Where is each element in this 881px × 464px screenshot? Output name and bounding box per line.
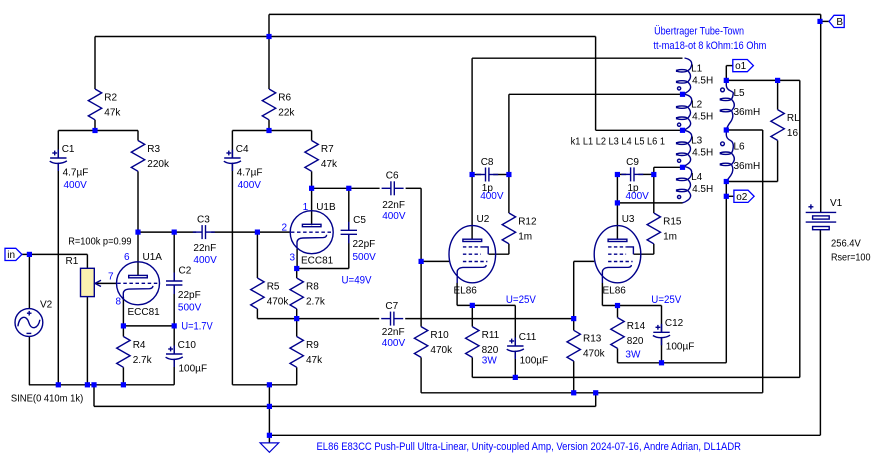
junction C12 bottom node bbox=[659, 360, 664, 365]
wire secondary CT to ground row bbox=[762, 130, 764, 393]
junction L1-L2 tap bbox=[680, 92, 685, 97]
wire bottom bus mid bbox=[232, 384, 296, 386]
wire R14 top bbox=[617, 306, 619, 318]
junction L2-L3 centre tap bbox=[680, 128, 685, 133]
junction U1B grid node bbox=[255, 230, 260, 235]
svg-text:C1: C1 bbox=[62, 144, 75, 155]
inductor L2 bbox=[676, 94, 713, 130]
svg-text:3: 3 bbox=[289, 252, 295, 263]
svg-text:R5: R5 bbox=[267, 281, 280, 292]
junction L6/RL node bbox=[724, 179, 729, 184]
svg-text:RL: RL bbox=[787, 113, 800, 124]
wire jog to ground bus bbox=[93, 385, 95, 407]
wire U2 anode to L1 top bbox=[472, 57, 682, 59]
resistor R8 bbox=[290, 278, 326, 309]
svg-text:o2: o2 bbox=[736, 192, 748, 203]
wire to V1 + bbox=[820, 14, 822, 212]
svg-text:22nF: 22nF bbox=[382, 327, 405, 338]
wire o1 flag stub bbox=[726, 65, 733, 67]
junction R8/R9/C7 node bbox=[294, 316, 299, 321]
wire o1 row bbox=[726, 79, 800, 81]
svg-text:22k: 22k bbox=[278, 107, 295, 118]
junction C9 right bbox=[651, 172, 656, 177]
wire o2 flag stub bbox=[726, 195, 733, 197]
inductor L4 bbox=[676, 167, 713, 203]
wire secondary centre tap bbox=[726, 129, 762, 131]
wire R1 bottom bbox=[86, 297, 88, 385]
resistor RL bbox=[771, 110, 800, 141]
junction U1A cathode node bbox=[121, 323, 126, 328]
svg-text:C2: C2 bbox=[179, 266, 192, 277]
wire U2 cathode bbox=[456, 283, 458, 306]
resistor R5 bbox=[251, 278, 290, 309]
wire o1 feedback row bbox=[472, 376, 800, 378]
wire R7 bottom bbox=[311, 171, 313, 188]
wire R1 wiper to U1A grid bbox=[97, 282, 117, 284]
wire R2 top bbox=[94, 37, 96, 90]
resistor R13 bbox=[567, 330, 606, 361]
wire R4 bottom bbox=[122, 367, 124, 385]
capacitor C8 bbox=[476, 157, 504, 202]
svg-text:400V: 400V bbox=[382, 338, 406, 349]
capacitor C1 bbox=[50, 144, 89, 191]
wire B+ top rail bbox=[269, 13, 821, 15]
svg-text:500V: 500V bbox=[178, 303, 202, 314]
svg-text:R15: R15 bbox=[663, 216, 682, 227]
wire V1 bottom bbox=[819, 230, 821, 435]
wire U1B cathode bbox=[296, 249, 298, 269]
svg-text:470k: 470k bbox=[430, 345, 453, 356]
junction C2 top bbox=[172, 230, 177, 235]
wire C1 top bbox=[57, 131, 59, 159]
svg-text:C10: C10 bbox=[178, 340, 197, 351]
resistor R6 bbox=[262, 89, 295, 120]
junction bus jog bbox=[91, 382, 96, 387]
svg-text:220k: 220k bbox=[147, 159, 170, 170]
junction C8 right bbox=[506, 172, 511, 177]
wire C12 bottom bbox=[661, 338, 663, 363]
svg-text:16: 16 bbox=[787, 128, 799, 139]
junction RL top node bbox=[775, 78, 780, 83]
potentiometer R1 bbox=[66, 256, 102, 297]
wire C2 top bbox=[173, 232, 175, 281]
svg-text:U1B: U1B bbox=[316, 202, 336, 213]
svg-text:C6: C6 bbox=[386, 171, 399, 182]
inductor L3 bbox=[676, 130, 713, 166]
resistor R2 bbox=[88, 89, 121, 120]
svg-text:Rser=100: Rser=100 bbox=[831, 252, 871, 263]
voltage source V1 (battery) bbox=[806, 198, 843, 230]
resistor R15 bbox=[647, 213, 682, 244]
svg-text:EL86 E83CC Push-Pull Ultra-Lin: EL86 E83CC Push-Pull Ultra-Linear, Unity… bbox=[317, 441, 742, 453]
capacitor C2 bbox=[166, 266, 202, 314]
wire C5 top bbox=[348, 188, 350, 230]
wire R8 top bbox=[296, 269, 298, 279]
svg-text:500V: 500V bbox=[353, 252, 377, 263]
wire V2 top bbox=[28, 254, 30, 308]
capacitor C6 bbox=[382, 171, 406, 223]
svg-text:22nF: 22nF bbox=[382, 200, 405, 211]
wire C1 down to bottom bus bbox=[57, 164, 59, 385]
junction C8 left bbox=[470, 172, 475, 177]
svg-text:C5: C5 bbox=[353, 215, 366, 226]
junction C10 top node bbox=[172, 323, 177, 328]
wire C2 bottom bbox=[173, 285, 175, 326]
svg-text:V1: V1 bbox=[830, 198, 843, 209]
wire C4 top bbox=[231, 131, 233, 159]
wire U1A cathode to R4 bbox=[122, 297, 124, 337]
resistor R4 bbox=[117, 337, 153, 368]
wire L3-L4 tap to R15 bbox=[654, 166, 683, 168]
capacitor C3 bbox=[193, 215, 217, 267]
wire R9 bottom bbox=[296, 367, 298, 385]
svg-text:4.5H: 4.5H bbox=[692, 75, 713, 86]
junction C5/C6 node bbox=[346, 186, 351, 191]
svg-text:2.7k: 2.7k bbox=[306, 296, 326, 307]
svg-text:R6: R6 bbox=[278, 92, 291, 103]
svg-text:47k: 47k bbox=[104, 107, 121, 118]
junction node o1 bbox=[724, 78, 729, 83]
wire R3 top bbox=[137, 131, 139, 141]
wire C8 left bbox=[472, 174, 481, 176]
resistor R7 bbox=[305, 141, 338, 172]
svg-text:36mH: 36mH bbox=[734, 107, 761, 118]
svg-text:47k: 47k bbox=[321, 159, 338, 170]
svg-text:R10: R10 bbox=[430, 330, 449, 341]
svg-text:R2: R2 bbox=[104, 92, 117, 103]
svg-text:R12: R12 bbox=[518, 216, 537, 227]
svg-text:400V: 400V bbox=[193, 255, 217, 266]
wire RL to o2 node bbox=[726, 181, 777, 183]
wire R11 top bbox=[471, 305, 473, 326]
wire R15 bottom bbox=[653, 244, 655, 254]
svg-text:R7: R7 bbox=[321, 144, 334, 155]
wire R6 bottom bbox=[268, 120, 270, 131]
svg-text:100µF: 100µF bbox=[179, 363, 208, 374]
wire C6 down to U2 grid / R10 bbox=[420, 188, 422, 326]
wire C5 bottom bbox=[348, 234, 350, 268]
wire C10 bottom bbox=[173, 360, 175, 385]
svg-text:1: 1 bbox=[303, 202, 309, 213]
wire U1A anode bbox=[137, 232, 139, 275]
wire U2 anode column bbox=[471, 58, 473, 239]
svg-text:U=25V: U=25V bbox=[506, 294, 537, 306]
wire to L2-L3 centre tap bbox=[596, 129, 683, 131]
svg-text:U=1.7V: U=1.7V bbox=[181, 321, 213, 333]
wire R7 top bbox=[311, 131, 313, 141]
junction bus C1 bbox=[56, 382, 61, 387]
svg-text:L2: L2 bbox=[691, 100, 703, 111]
svg-text:U2: U2 bbox=[477, 214, 490, 225]
wire C12 top bbox=[661, 306, 663, 333]
svg-text:C12: C12 bbox=[665, 318, 684, 329]
voltage source V2 (sine) bbox=[15, 300, 53, 337]
junction bus R4 bbox=[121, 382, 126, 387]
capacitor C11 bbox=[507, 332, 548, 366]
svg-text:in: in bbox=[7, 250, 15, 261]
wire in flag stub bbox=[22, 253, 30, 255]
svg-text:R14: R14 bbox=[627, 321, 646, 332]
ground bbox=[260, 443, 279, 452]
svg-text:R9: R9 bbox=[306, 340, 319, 351]
svg-text:EL86: EL86 bbox=[603, 285, 627, 296]
inductor L5 bbox=[720, 80, 760, 130]
junction C9 left bbox=[615, 172, 620, 177]
wire R12 to L1-L2 tap bbox=[509, 93, 683, 95]
wire V2 bottom bbox=[28, 336, 30, 384]
svg-text:4.5H: 4.5H bbox=[692, 112, 713, 123]
wire V1 return row bbox=[269, 434, 820, 436]
wire R9 top bbox=[296, 319, 298, 337]
wire down to R6 bbox=[268, 14, 270, 89]
wire node row C4/R6/R7 bbox=[232, 130, 311, 132]
junction B+ rail bbox=[266, 34, 271, 39]
svg-text:2.7k: 2.7k bbox=[133, 355, 153, 366]
wire R8 bottom bbox=[296, 309, 298, 319]
svg-text:22nF: 22nF bbox=[193, 243, 216, 254]
junction U3 cathode node bbox=[615, 303, 620, 308]
wire R3 bottom to node bbox=[137, 171, 139, 232]
svg-text:ECC81: ECC81 bbox=[128, 307, 161, 318]
wire R5 bottom bbox=[256, 309, 258, 319]
wire ground bus riser bbox=[595, 393, 597, 407]
svg-text:R4: R4 bbox=[133, 340, 146, 351]
resistor R14 bbox=[611, 318, 646, 349]
junction U2 grid node bbox=[419, 259, 424, 264]
resistor R3 bbox=[131, 141, 170, 172]
svg-text:tt-ma18-ot 8 kOhm:16 Ohm: tt-ma18-ot 8 kOhm:16 Ohm bbox=[653, 40, 766, 52]
capacitor C4 bbox=[224, 144, 263, 191]
wire R12 to screen bbox=[489, 253, 509, 255]
svg-text:3W: 3W bbox=[482, 356, 498, 367]
wire C11 top bbox=[514, 305, 516, 346]
svg-text:V2: V2 bbox=[40, 300, 53, 311]
svg-text:400V: 400V bbox=[480, 191, 504, 202]
svg-text:100µF: 100µF bbox=[666, 342, 695, 353]
wire C11 bottom bbox=[514, 352, 516, 378]
svg-text:L3: L3 bbox=[691, 136, 703, 147]
svg-text:L6: L6 bbox=[734, 142, 746, 153]
junction U1A anode node bbox=[135, 230, 140, 235]
wire in row bbox=[29, 253, 87, 255]
svg-text:R8: R8 bbox=[306, 281, 319, 292]
svg-text:C11: C11 bbox=[519, 332, 537, 343]
wire U2 grid lead bbox=[421, 260, 449, 262]
svg-text:8: 8 bbox=[115, 296, 121, 307]
net flag B bbox=[829, 15, 844, 28]
junction L3-L4 tap bbox=[680, 165, 685, 170]
wire R5 to node bbox=[257, 318, 296, 320]
capacitor C5 bbox=[341, 215, 377, 263]
svg-text:C3: C3 bbox=[197, 215, 210, 226]
svg-text:U1A: U1A bbox=[143, 252, 163, 263]
svg-text:ECC81: ECC81 bbox=[301, 255, 334, 266]
svg-text:R=100k p=0.99: R=100k p=0.99 bbox=[68, 236, 132, 247]
svg-text:4.5H: 4.5H bbox=[692, 148, 713, 159]
wire R11 bottom bbox=[471, 357, 473, 377]
wire R2 bottom bbox=[94, 120, 96, 131]
wire C9 left bbox=[617, 173, 626, 175]
svg-text:R1: R1 bbox=[66, 256, 79, 267]
wire C8 right bbox=[493, 174, 509, 176]
triode U1B (ECC81) bbox=[290, 211, 333, 254]
wire cathode row to C11 bbox=[457, 304, 515, 306]
wire o1 column bbox=[799, 80, 801, 377]
wire U3 anode column bbox=[616, 174, 618, 239]
wire U3 grid riser bbox=[573, 261, 575, 318]
junction node o2 bbox=[724, 194, 729, 199]
svg-text:820: 820 bbox=[627, 336, 644, 347]
capacitor C9 bbox=[621, 157, 649, 202]
junction bus R1 bbox=[85, 382, 90, 387]
pentode U2 (EL86) bbox=[449, 226, 496, 283]
wire C7 to U3 grid node bbox=[405, 318, 574, 320]
wire to ground symbol bbox=[268, 406, 270, 443]
wire R15 to screen bbox=[634, 253, 654, 255]
capacitor C12 bbox=[653, 318, 694, 352]
wire R12 bottom bbox=[508, 244, 510, 254]
resistor R9 bbox=[290, 337, 323, 368]
svg-text:L1: L1 bbox=[691, 63, 703, 74]
svg-text:R3: R3 bbox=[147, 144, 160, 155]
wire o1 stub bbox=[725, 66, 727, 81]
svg-text:1m: 1m bbox=[663, 231, 677, 242]
junction R6/R7/C4 node bbox=[266, 128, 271, 133]
net flag in bbox=[5, 248, 22, 261]
junction bus link bbox=[267, 382, 272, 387]
svg-text:k1 L1 L2 L3 L4 L5 L6 1: k1 L1 L2 L3 L4 L5 L6 1 bbox=[571, 137, 666, 148]
wire grid return row bbox=[421, 392, 763, 394]
capacitor C10 bbox=[166, 340, 207, 374]
svg-text:400V: 400V bbox=[238, 180, 262, 191]
svg-text:C9: C9 bbox=[626, 157, 639, 168]
wire anode row U1B bbox=[312, 187, 349, 189]
svg-text:SINE(0 410m 1k): SINE(0 410m 1k) bbox=[11, 393, 83, 404]
svg-text:C4: C4 bbox=[236, 144, 249, 155]
resistor R11 bbox=[466, 327, 500, 358]
svg-text:400V: 400V bbox=[382, 211, 406, 222]
junction U3 grid node bbox=[571, 316, 576, 321]
resistor R12 bbox=[502, 213, 537, 244]
svg-text:o1: o1 bbox=[735, 61, 747, 72]
net flag o1 bbox=[733, 60, 754, 73]
svg-text:400V: 400V bbox=[64, 180, 88, 191]
svg-text:B: B bbox=[836, 17, 843, 28]
svg-text:R13: R13 bbox=[583, 334, 602, 345]
wire C3 to R5 node bbox=[211, 231, 257, 233]
svg-text:47k: 47k bbox=[306, 355, 323, 366]
wire C6 to corner bbox=[406, 187, 422, 189]
svg-text:Übertrager Tube-Town: Übertrager Tube-Town bbox=[654, 25, 744, 37]
wire R5 top bbox=[256, 232, 258, 278]
wire R14 bottom bbox=[617, 348, 619, 362]
inductor L1 bbox=[676, 58, 713, 94]
wire L4 bottom to U3 anode bbox=[617, 202, 682, 204]
svg-text:C8: C8 bbox=[481, 157, 494, 168]
wire U3 grid lead bbox=[574, 260, 595, 262]
wire o2 feedback row bbox=[618, 362, 727, 364]
svg-text:3W: 3W bbox=[625, 350, 641, 361]
wire to U1B grid bbox=[257, 231, 290, 233]
wire bus link bbox=[268, 385, 270, 407]
svg-text:256.4V: 256.4V bbox=[831, 238, 861, 249]
wire node to C3 bbox=[138, 231, 196, 233]
svg-text:4.7µF: 4.7µF bbox=[237, 167, 263, 178]
svg-text:7: 7 bbox=[108, 272, 114, 283]
svg-text:C7: C7 bbox=[385, 301, 398, 312]
wire RL bottom bbox=[777, 140, 779, 181]
junction U1B cathode node bbox=[294, 266, 299, 271]
svg-text:470k: 470k bbox=[583, 349, 606, 360]
junction ground link node bbox=[593, 390, 598, 395]
wire ground bus bbox=[94, 405, 596, 407]
junction node B bbox=[817, 19, 822, 24]
junction U3 anode node bbox=[615, 200, 620, 205]
wire B flag stub bbox=[820, 20, 829, 22]
svg-text:1m: 1m bbox=[518, 231, 532, 242]
svg-text:22pF: 22pF bbox=[178, 290, 201, 301]
wire U1B anode bbox=[311, 188, 313, 225]
net flag o2 bbox=[734, 190, 754, 203]
triode U1A (ECC81) bbox=[117, 262, 160, 305]
svg-text:U3: U3 bbox=[622, 214, 635, 225]
wire R13 top bbox=[573, 319, 575, 331]
resistor R10 bbox=[414, 327, 453, 358]
wire R13 bottom bbox=[573, 361, 575, 393]
wire to C6 bbox=[349, 187, 380, 189]
junction ground node bbox=[267, 433, 272, 438]
svg-text:U=25V: U=25V bbox=[651, 294, 682, 306]
svg-text:6: 6 bbox=[124, 252, 130, 263]
junction U2 cathode node bbox=[470, 303, 475, 308]
junction U1B anode node bbox=[309, 186, 314, 191]
svg-text:R11: R11 bbox=[482, 330, 500, 341]
wire bottom bus left bbox=[29, 384, 174, 386]
wire node row C1/R3 bbox=[58, 130, 138, 132]
svg-text:U=49V: U=49V bbox=[342, 274, 373, 286]
svg-text:36mH: 36mH bbox=[734, 161, 761, 172]
junction L5-L6 tap bbox=[724, 127, 729, 132]
wire R12 top bbox=[508, 94, 510, 213]
svg-text:2: 2 bbox=[281, 223, 287, 234]
pentode U3 (EL86) bbox=[594, 226, 641, 283]
wire row to R2/R6 tops bbox=[95, 36, 596, 38]
svg-text:820: 820 bbox=[482, 345, 499, 356]
svg-text:470k: 470k bbox=[267, 296, 290, 307]
svg-text:400V: 400V bbox=[626, 191, 650, 202]
inductor L6 bbox=[720, 130, 760, 182]
svg-text:EL86: EL86 bbox=[454, 285, 478, 296]
wire R15 top bbox=[653, 167, 655, 213]
wire RL top bbox=[777, 80, 779, 109]
wire C10 top bbox=[173, 326, 175, 354]
wire U3 cathode bbox=[601, 283, 603, 306]
wire down to primary CT bbox=[595, 37, 597, 131]
wire R1 top bbox=[86, 254, 88, 268]
wire cathode row to C10 bbox=[123, 325, 174, 327]
wire o2 column bbox=[725, 182, 727, 363]
svg-text:L5: L5 bbox=[734, 88, 746, 99]
wire C5 to cathode bbox=[297, 268, 349, 270]
junction R13 bottom node bbox=[571, 390, 576, 395]
wire R10 bottom bbox=[420, 357, 422, 392]
svg-text:100µF: 100µF bbox=[520, 355, 549, 366]
wire to C7 bbox=[297, 318, 380, 320]
wire cathode row to C12 bbox=[602, 305, 661, 307]
svg-text:22pF: 22pF bbox=[353, 239, 376, 250]
wire C4 down to bus bbox=[231, 164, 233, 385]
junction C11 bottom node bbox=[513, 375, 518, 380]
